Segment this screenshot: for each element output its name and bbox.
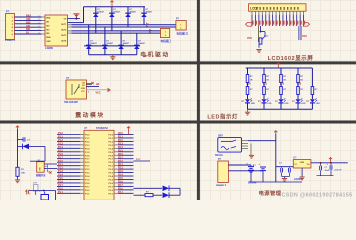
svg-text:LED: LED <box>284 103 289 105</box>
svg-text:10uF: 10uF <box>325 170 330 172</box>
svg-text:P0.0: P0.0 <box>109 135 114 137</box>
svg-text:P1.2: P1.2 <box>58 140 63 142</box>
svg-text:P1.5: P1.5 <box>85 152 90 154</box>
svg-text:1: 1 <box>39 16 40 18</box>
svg-text:P0.4: P0.4 <box>109 147 114 150</box>
svg-text:GND: GND <box>300 162 305 164</box>
svg-text:P1.5: P1.5 <box>58 178 63 180</box>
svg-text:P2.7: P2.7 <box>118 185 123 187</box>
svg-text:5: 5 <box>39 29 40 31</box>
svg-text:P1.4: P1.4 <box>58 146 63 149</box>
svg-text:P22: P22 <box>280 84 285 86</box>
svg-text:GND: GND <box>46 41 51 43</box>
svg-text:P1.5: P1.5 <box>85 179 90 181</box>
svg-text:P2.2: P2.2 <box>118 168 123 170</box>
svg-text:OUT4: OUT4 <box>61 39 67 42</box>
svg-text:P2.5: P2.5 <box>118 178 123 180</box>
svg-text:A-: A- <box>146 24 149 27</box>
svg-text:P0.0: P0.0 <box>85 135 90 137</box>
svg-text:P0.6: P0.6 <box>109 183 114 185</box>
svg-text:P0.5: P0.5 <box>109 179 114 181</box>
svg-text:3: 3 <box>88 91 89 93</box>
svg-text:VCC: VCC <box>96 93 101 95</box>
svg-text:P0.0: P0.0 <box>85 162 90 164</box>
svg-text:P1.7: P1.7 <box>58 185 63 187</box>
svg-text:1N4007: 1N4007 <box>106 42 113 45</box>
svg-text:P2.1: P2.1 <box>118 164 123 166</box>
svg-text:SW-KG: SW-KG <box>215 155 223 157</box>
svg-text:P2.2: P2.2 <box>85 141 90 143</box>
svg-text:P?: P? <box>6 10 10 14</box>
svg-text:AD: AD <box>96 83 100 86</box>
svg-text:3: 3 <box>39 23 40 25</box>
svg-text:P2.6: P2.6 <box>118 182 123 184</box>
svg-text:P1.0: P1.0 <box>58 188 63 190</box>
svg-text:1N4007: 1N4007 <box>138 42 145 45</box>
svg-text:P0.2: P0.2 <box>109 169 114 171</box>
svg-text:P2.0: P2.0 <box>118 161 123 163</box>
svg-text:P3.7: P3.7 <box>85 159 90 161</box>
svg-text:2: 2 <box>88 87 89 89</box>
svg-text:P2.6: P2.6 <box>118 154 123 156</box>
svg-text:P1.4: P1.4 <box>58 174 63 177</box>
svg-text:P0.7: P0.7 <box>109 159 114 161</box>
svg-text:4: 4 <box>39 25 40 28</box>
svg-text:P2.6: P2.6 <box>85 183 90 185</box>
svg-text:STC89C52: STC89C52 <box>96 127 108 130</box>
svg-text:P0.3: P0.3 <box>109 173 114 175</box>
svg-text:电机接口: 电机接口 <box>161 39 172 43</box>
svg-text:6: 6 <box>39 33 40 35</box>
svg-text:P0.4: P0.4 <box>85 147 90 150</box>
svg-text:ENB: ENB <box>46 37 51 39</box>
svg-text:P2.0: P2.0 <box>118 133 123 135</box>
svg-text:P3.3: P3.3 <box>85 173 90 175</box>
svg-text:SW?: SW? <box>218 136 224 138</box>
svg-text:1N4007: 1N4007 <box>97 11 104 14</box>
svg-text:P3.3: P3.3 <box>85 145 90 147</box>
svg-text:P2.7: P2.7 <box>118 157 123 159</box>
svg-text:P2.2: P2.2 <box>85 169 90 171</box>
svg-text:P0.1: P0.1 <box>109 166 114 168</box>
svg-text:OUT3: OUT3 <box>61 35 67 37</box>
svg-text:LED: LED <box>267 103 272 105</box>
svg-text:P0.2: P0.2 <box>109 141 114 143</box>
svg-text:B-: B- <box>149 32 152 34</box>
svg-text:P23: P23 <box>297 84 302 86</box>
svg-text:LED: LED <box>251 103 256 105</box>
svg-text:P0.4: P0.4 <box>85 175 90 178</box>
svg-text:LED: LED <box>301 103 306 105</box>
svg-text:P1.6: P1.6 <box>58 182 63 184</box>
svg-text:P1.1: P1.1 <box>85 138 90 140</box>
svg-text:P0.6: P0.6 <box>109 155 114 157</box>
svg-text:P2.3: P2.3 <box>118 171 123 173</box>
svg-text:电机驱动: 电机驱动 <box>140 51 170 59</box>
svg-text:震动模块: 震动模块 <box>74 111 105 119</box>
svg-text:LED指示灯: LED指示灯 <box>207 112 238 120</box>
svg-text:2: 2 <box>165 35 166 37</box>
svg-text:1K: 1K <box>300 80 303 82</box>
svg-text:P0.4: P0.4 <box>109 175 114 178</box>
svg-text:LCD1602显示屏: LCD1602显示屏 <box>268 54 314 62</box>
svg-text:1: 1 <box>165 31 166 33</box>
svg-text:P3.7: P3.7 <box>136 159 141 161</box>
svg-text:P2.0: P2.0 <box>118 188 123 190</box>
svg-text:VCC: VCC <box>81 91 86 93</box>
svg-text:P20: P20 <box>247 84 252 86</box>
svg-text:VCC: VCC <box>302 35 307 38</box>
svg-text:P1.1: P1.1 <box>58 192 63 194</box>
svg-text:OUT1: OUT1 <box>61 24 67 26</box>
svg-text:P2.1: P2.1 <box>118 137 123 139</box>
svg-text:P1.1: P1.1 <box>58 164 63 166</box>
svg-text:1N4007: 1N4007 <box>90 42 97 45</box>
svg-text:P?: P? <box>176 18 180 21</box>
svg-text:1K: 1K <box>250 80 253 82</box>
svg-text:1N4007: 1N4007 <box>130 11 137 14</box>
svg-text:P1.3: P1.3 <box>58 143 63 145</box>
svg-text:P0.0: P0.0 <box>85 190 90 192</box>
svg-text:RP?: RP? <box>264 36 269 38</box>
svg-text:Header 2: Header 2 <box>216 184 227 187</box>
svg-text:2: 2 <box>180 28 181 30</box>
svg-text:P1.5: P1.5 <box>58 150 63 152</box>
svg-text:轻触开关: 轻触开关 <box>36 173 46 177</box>
svg-text:P1.3: P1.3 <box>58 171 63 173</box>
svg-text:P2.6: P2.6 <box>85 155 90 157</box>
svg-text:VO: VO <box>307 164 310 166</box>
svg-text:P2.1: P2.1 <box>118 192 123 194</box>
svg-text:P2.4: P2.4 <box>118 146 123 149</box>
svg-text:1: 1 <box>180 24 181 26</box>
svg-text:1K: 1K <box>283 80 286 82</box>
svg-text:P2.5: P2.5 <box>118 150 123 152</box>
svg-text:1N4007: 1N4007 <box>146 11 153 14</box>
svg-text:L298N: L298N <box>45 46 53 50</box>
svg-text:ENA: ENA <box>46 17 51 20</box>
svg-text:P2.3: P2.3 <box>118 143 123 145</box>
svg-text:电机接口1: 电机接口1 <box>177 31 189 35</box>
svg-text:P1.1: P1.1 <box>85 166 90 168</box>
svg-text:GND: GND <box>81 88 86 90</box>
svg-text:VCC: VCC <box>247 37 252 40</box>
svg-text:P1.1: P1.1 <box>58 137 63 139</box>
svg-text:P2.4: P2.4 <box>118 174 123 177</box>
svg-text:10K: 10K <box>21 173 25 175</box>
svg-text:U?: U? <box>66 77 70 80</box>
svg-text:+100 uF: +100 uF <box>334 170 342 172</box>
svg-text:P1.1: P1.1 <box>85 193 90 195</box>
svg-text:P21: P21 <box>263 84 268 86</box>
svg-text:P1.0: P1.0 <box>58 133 63 135</box>
svg-text:U?: U? <box>84 127 88 130</box>
svg-text:1N4007: 1N4007 <box>113 11 120 14</box>
svg-text:Power 6: Power 6 <box>5 38 16 42</box>
svg-text:P0.0: P0.0 <box>109 190 114 192</box>
svg-text:P1.6: P1.6 <box>58 154 63 156</box>
svg-text:1K: 1K <box>266 80 269 82</box>
svg-text:SW-18010P: SW-18010P <box>64 100 78 104</box>
svg-text:OUT2: OUT2 <box>61 29 67 31</box>
svg-text:2: 2 <box>39 19 40 21</box>
svg-text:电源管理: 电源管理 <box>259 189 282 197</box>
svg-text:1N4007: 1N4007 <box>123 42 130 45</box>
svg-text:P2.2: P2.2 <box>118 140 123 142</box>
svg-text:CSDN @60021902784155: CSDN @60021902784155 <box>282 192 353 198</box>
svg-text:P0.7: P0.7 <box>109 186 114 188</box>
svg-text:5V: 5V <box>26 32 29 35</box>
svg-text:P0.3: P0.3 <box>109 145 114 147</box>
svg-text:P1.7: P1.7 <box>58 157 63 159</box>
svg-text:LED: LED <box>316 103 321 105</box>
svg-text:P0.5: P0.5 <box>109 152 114 154</box>
svg-text:P0.1: P0.1 <box>109 193 114 195</box>
svg-text:SW: SW <box>40 167 42 170</box>
svg-text:P1.0: P1.0 <box>58 161 63 163</box>
svg-text:P0.1: P0.1 <box>109 138 114 140</box>
svg-text:P0.0: P0.0 <box>109 162 114 164</box>
svg-text:P1.2: P1.2 <box>58 168 63 170</box>
svg-text:P3.7: P3.7 <box>85 186 90 188</box>
